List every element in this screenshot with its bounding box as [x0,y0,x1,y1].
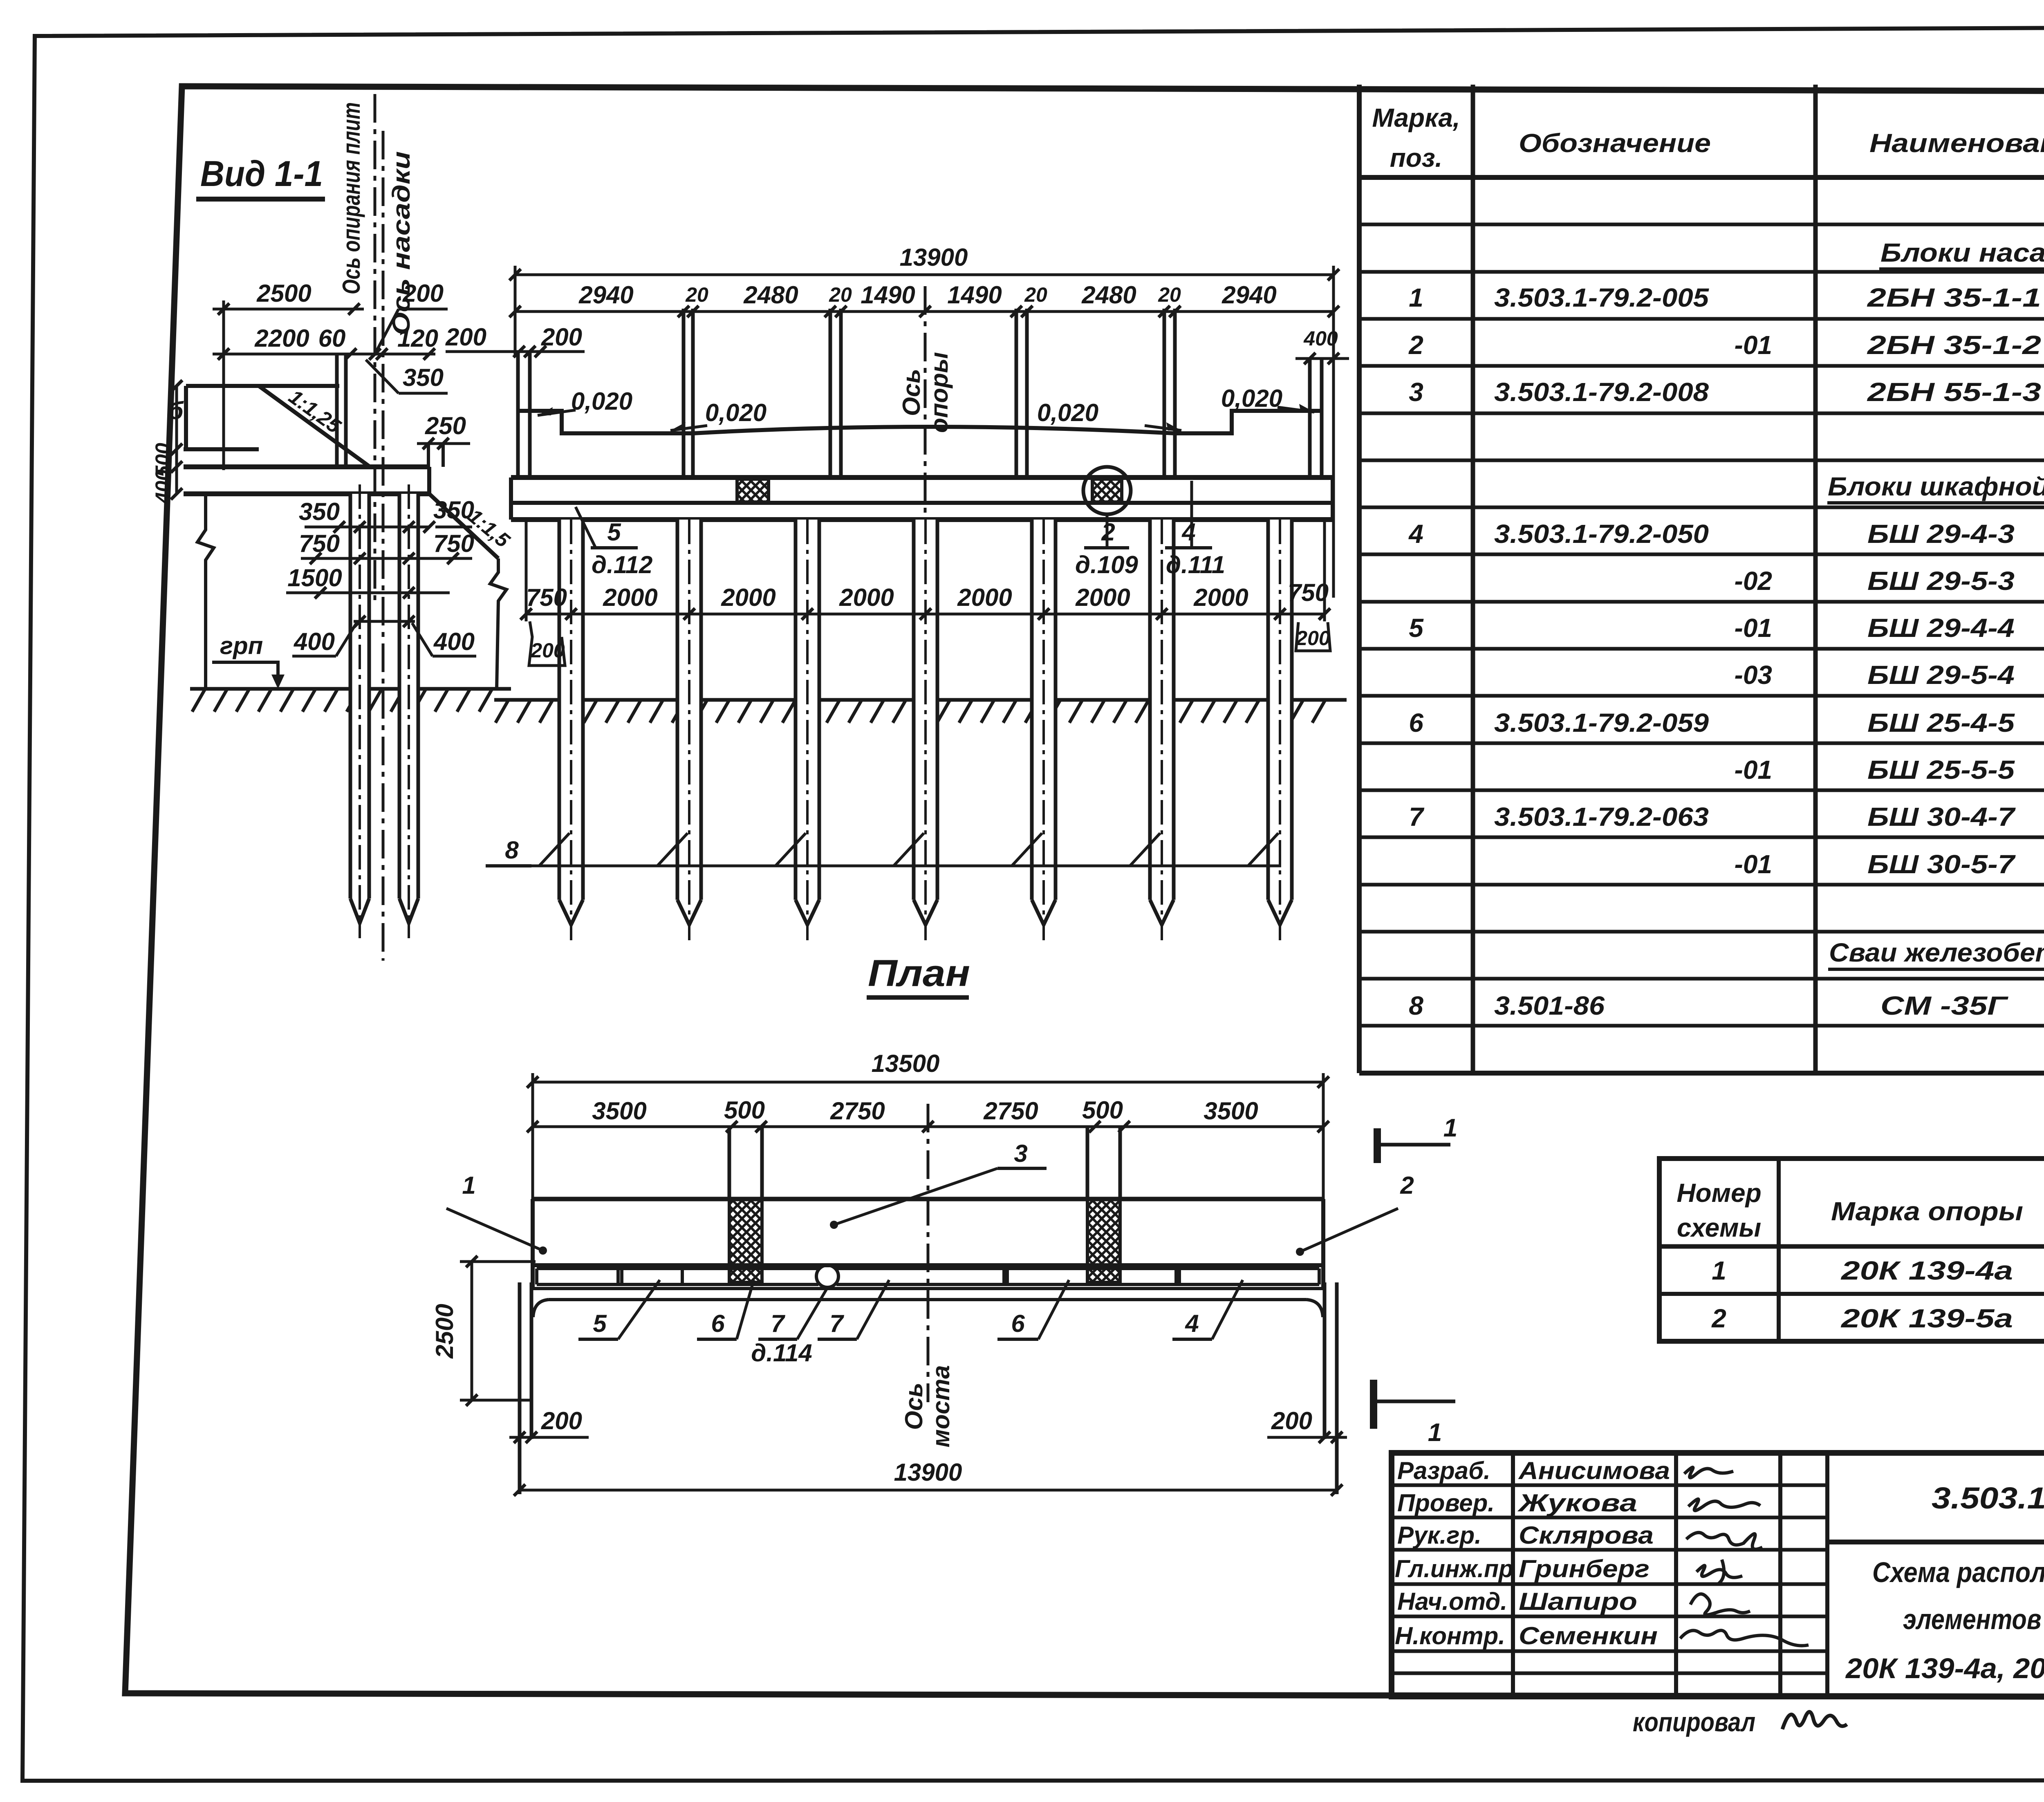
svg-text:200: 200 [445,323,486,351]
svg-text:элементов опор: элементов опор [1903,1603,2044,1635]
svg-text:2480: 2480 [743,281,798,309]
pile width 400 400 [354,620,415,623]
svg-text:200: 200 [530,639,565,662]
section mark 1 top right [1374,1128,1381,1163]
svg-text:1: 1 [1409,283,1423,312]
piles (view 1-1) [350,494,369,899]
svg-text:1: 1 [1443,1114,1457,1142]
svg-text:20: 20 [1158,283,1181,306]
svg-text:3: 3 [1409,377,1423,407]
svg-text:-01: -01 [1735,755,1773,784]
svg-text:2: 2 [1711,1304,1726,1333]
svg-text:1: 1 [1428,1419,1442,1447]
svg-text:БШ 30-4-7: БШ 30-4-7 [1867,802,2016,832]
svg-text:Жукова: Жукова [1517,1489,1637,1517]
svg-text:2750: 2750 [983,1097,1038,1125]
signatures [1684,1467,1733,1477]
svg-text:200: 200 [541,1407,582,1434]
svg-text:Анисимова: Анисимова [1518,1457,1670,1484]
svg-text:БШ 25-5-5: БШ 25-5-5 [1867,755,2015,784]
svg-text:350: 350 [299,498,340,525]
svg-text:2500: 2500 [431,1304,458,1358]
svg-text:13900: 13900 [894,1459,962,1486]
svg-text:д.114: д.114 [751,1339,812,1367]
column pair above cap [335,354,339,467]
svg-text:СМ -35Г: СМ -35Г [1880,991,2008,1020]
svg-text:Вид 1-1: Вид 1-1 [200,153,323,194]
svg-text:350: 350 [433,496,474,524]
dim 2500 [213,308,364,311]
svg-text:6: 6 [1011,1310,1025,1337]
svg-text:2480: 2480 [1081,281,1136,309]
svg-text:5: 5 [1409,613,1424,643]
row lines [1359,223,2044,226]
grid verticals [1357,85,1362,1073]
cap band top edge [533,1197,1323,1201]
svg-text:0,020: 0,020 [705,399,766,426]
cap cross-section [184,464,429,469]
svg-text:2000: 2000 [603,584,657,611]
svg-text:2500: 2500 [256,280,311,307]
svg-text:2750: 2750 [830,1097,885,1125]
svg-text:250: 250 [425,412,466,439]
svg-text:20: 20 [1024,283,1047,306]
svg-text:5: 5 [593,1310,607,1337]
dim row 3500 500 2750 2750 500 3500 [533,1125,1323,1128]
svg-text:Марка опоры: Марка опоры [1831,1197,2023,1226]
svg-text:БШ 29-5-3: БШ 29-5-3 [1867,566,2015,596]
svg-text:Семенкин: Семенкин [1519,1622,1658,1650]
svg-text:2000: 2000 [1193,584,1248,611]
svg-text:Склярова: Склярова [1519,1522,1654,1549]
svg-text:400: 400 [1303,327,1338,350]
svg-text:750: 750 [1288,579,1329,606]
svg-text:2БН 35-1-1: 2БН 35-1-1 [1867,283,2041,312]
svg-text:-01: -01 [1735,613,1773,643]
lower body outline [533,1300,549,1317]
svg-text:поз.: поз. [1390,143,1443,173]
svg-text:Блоки шкафной стенки: Блоки шкафной стенки [1828,472,2044,501]
svg-text:План: План [868,953,970,994]
svg-text:2: 2 [1400,1172,1414,1199]
svg-text:-03: -03 [1735,660,1773,690]
svg-text:1490: 1490 [947,281,1002,309]
svg-text:400: 400 [433,628,475,655]
svg-text:1500: 1500 [287,564,342,592]
centre axis of pier [924,286,927,523]
svg-text:5: 5 [607,518,621,546]
svg-text:200: 200 [1271,1407,1312,1434]
svg-text:опоры: опоры [926,352,953,433]
dim 2500 (rotated, left) [471,1262,473,1400]
svg-text:Н.контр.: Н.контр. [1395,1622,1505,1650]
svg-text:2: 2 [1408,330,1423,360]
svg-text:350: 350 [403,364,444,391]
posts (stoiki) [682,309,686,477]
svg-text:13900: 13900 [900,244,968,271]
svg-text:Обозначение: Обозначение [1519,128,1711,158]
svg-text:копировал: копировал [1633,1707,1755,1737]
svg-text:-01: -01 [1735,330,1773,360]
svg-text:д.109: д.109 [1075,551,1138,578]
svg-text:7: 7 [1409,802,1425,832]
svg-text:0,020: 0,020 [571,388,632,415]
slope 1:1.25 [259,386,370,467]
dim row 2940 20 2480 20 1490 1490 20 2480 20 2940 [515,310,1334,313]
svg-text:20К 139-4а, 20К 139-5а: 20К 139-4а, 20К 139-5а [1845,1652,2044,1684]
svg-text:БШ 29-5-4: БШ 29-5-4 [1867,660,2015,690]
bearing pad left (hatched) [737,479,769,502]
slope 1:1.5 right [429,494,498,558]
strip blocks [537,1267,818,1270]
shkaf wall strip [533,1263,1323,1267]
svg-text:Блоки насадки: Блоки насадки [1880,238,2044,267]
svg-text:схемы: схемы [1677,1213,1761,1242]
svg-text:750: 750 [526,584,567,611]
svg-text:Ось: Ось [898,369,925,416]
svg-text:2000: 2000 [839,584,894,611]
svg-text:8: 8 [505,836,519,864]
svg-text:500: 500 [1082,1096,1123,1124]
svg-text:2200: 2200 [254,325,309,352]
svg-text:2940: 2940 [1221,281,1276,309]
cap band [511,475,1333,480]
bridge axis [927,1104,930,1402]
axis: Ось насадки [382,131,385,961]
svg-text:3500: 3500 [592,1097,646,1125]
svg-text:60: 60 [318,325,346,352]
svg-text:20К 139-4а: 20К 139-4а [1841,1256,2013,1285]
svg-text:200: 200 [402,280,444,307]
svg-text:Ось: Ось [900,1383,928,1430]
svg-text:Схема расположения: Схема расположения [1872,1556,2044,1588]
svg-text:20: 20 [685,283,708,306]
ground hatch (view 1-1) [192,689,492,712]
top surface polyline [518,411,1322,433]
svg-text:БШ 25-4-5: БШ 25-4-5 [1867,708,2015,737]
svg-text:20: 20 [829,283,852,306]
svg-text:120: 120 [397,325,438,352]
svg-text:2940: 2940 [578,281,633,309]
svg-text:1: 1 [462,1172,475,1199]
svg-text:200: 200 [1295,627,1330,650]
svg-text:0,020: 0,020 [1037,399,1098,426]
svg-text:3.501-86: 3.501-86 [1494,991,1605,1020]
svg-text:3500: 3500 [1204,1097,1258,1125]
svg-text:1: 1 [1712,1256,1726,1285]
connector circle [816,1265,838,1287]
svg-text:2000: 2000 [957,584,1012,611]
break line left with zigzag [197,494,214,689]
svg-text:3.503.1-79.2-059: 3.503.1-79.2-059 [1494,708,1709,737]
svg-text:2000: 2000 [1075,584,1130,611]
svg-text:БШ 29-4-4: БШ 29-4-4 [1867,613,2015,643]
svg-text:Разраб.: Разраб. [1397,1457,1490,1484]
svg-text:Ось опирания плит: Ось опирания плит [338,102,365,294]
svg-text:750: 750 [433,530,474,557]
svg-text:2000: 2000 [721,584,775,611]
svg-text:8: 8 [1409,991,1423,1020]
dim 2200 60 120 [213,353,435,356]
svg-text:2БН 35-1-2: 2БН 35-1-2 [1867,330,2041,360]
svg-text:д.112: д.112 [592,551,652,578]
svg-text:4: 4 [1181,518,1195,546]
bearing ledge outline [186,384,339,388]
svg-text:4: 4 [1185,1310,1199,1337]
svg-text:Гл.инж.пр: Гл.инж.пр [1395,1555,1513,1582]
svg-text:моста: моста [927,1365,955,1447]
svg-text:-01: -01 [1735,849,1773,879]
svg-text:3.503.1-79.2-005: 3.503.1-79.2-005 [1494,283,1710,312]
svg-text:2БН 55-1-3: 2БН 55-1-3 [1867,377,2041,407]
svg-text:Марка,: Марка, [1372,103,1460,132]
svg-text:Гринберг: Гринберг [1519,1555,1650,1582]
svg-text:200: 200 [541,323,582,351]
svg-text:0,020: 0,020 [1221,385,1282,412]
svg-text:6: 6 [711,1310,725,1337]
svg-text:Рук.гр.: Рук.гр. [1397,1522,1481,1549]
svg-text:Сваи железобетонные: Сваи железобетонные [1829,938,2044,967]
axis: Ось опирания плит [374,94,377,601]
svg-text:Номер: Номер [1676,1178,1761,1208]
svg-text:7: 7 [771,1310,785,1337]
svg-text:1490: 1490 [861,281,915,309]
svg-text:6: 6 [1409,708,1423,737]
bearing pad right (hatched, circled) [1092,479,1122,502]
svg-text:4: 4 [1408,519,1423,549]
piles (elevation): 7 piles [559,520,1292,940]
section mark 1 bottom right [1370,1380,1377,1429]
hatched columns in plan [728,1127,731,1199]
svg-text:Наименование: Наименование [1869,128,2044,158]
svg-text:13500: 13500 [872,1050,940,1077]
svg-text:400: 400 [294,628,335,655]
svg-text:3.503.1-79.1-050: 3.503.1-79.1-050 [1932,1481,2044,1515]
svg-text:3.503.1-79.2-063: 3.503.1-79.2-063 [1494,802,1709,832]
svg-text:7: 7 [829,1310,844,1337]
stamp rows [1392,1484,1827,1487]
ground (elevation) [495,700,1325,723]
svg-text:-02: -02 [1735,566,1773,596]
svg-text:д.111: д.111 [1166,551,1225,578]
svg-text:Провер.: Провер. [1397,1489,1495,1517]
svg-text:3.503.1-79.2-008: 3.503.1-79.2-008 [1494,377,1709,407]
svg-text:3.503.1-79.2-050: 3.503.1-79.2-050 [1494,519,1709,549]
svg-text:Шапиро: Шапиро [1519,1588,1637,1615]
svg-text:500: 500 [724,1096,765,1124]
svg-text:Нач.отд.: Нач.отд. [1397,1588,1507,1615]
svg-text:грп: грп [220,632,263,659]
svg-text:3: 3 [1014,1140,1027,1167]
svg-text:БШ 29-4-3: БШ 29-4-3 [1867,519,2015,549]
break line right with zigzag [490,558,507,689]
right side rows [1827,1540,2044,1544]
svg-text:20К 139-5а: 20К 139-5а [1841,1304,2013,1333]
svg-text:БШ 30-5-7: БШ 30-5-7 [1867,849,2016,879]
edge walls [516,352,520,477]
